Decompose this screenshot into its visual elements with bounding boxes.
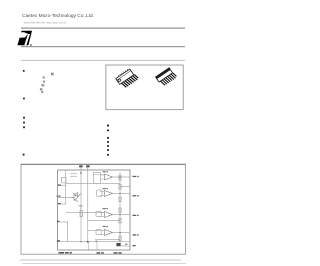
part number text fragment 2 <box>43 76 45 78</box>
part number text fragment 3 <box>43 81 45 83</box>
bias block U8 <box>96 229 101 235</box>
pin label OUT2 <box>133 195 137 196</box>
resistor R4 <box>119 208 121 213</box>
pin label OUT4 <box>133 234 137 235</box>
wire pin IN1 <box>58 185 67 187</box>
wire op4 input feed <box>88 230 100 232</box>
header rule below logo <box>21 46 185 47</box>
junction node OUT4 <box>119 232 120 233</box>
description bullets column <box>107 125 109 156</box>
feature bullet 4 <box>23 122 25 124</box>
wire Q4 emitter stub <box>96 242 98 250</box>
part number text fragment 6 <box>41 91 43 93</box>
schematic figure frame <box>21 164 186 254</box>
wire OUT3 <box>113 214 130 216</box>
pin label IN4 <box>57 221 60 222</box>
pin label OUT3 <box>133 215 137 216</box>
wire OUT4 <box>113 232 130 234</box>
resistor R6 <box>119 236 121 241</box>
wire pin IN3 <box>58 203 67 205</box>
schematic figure frame top rule <box>21 164 186 165</box>
part number text fragment 1 <box>51 73 54 76</box>
figure caption word 5 <box>101 252 104 254</box>
op-amp U4 <box>105 230 113 236</box>
wire pin IN4 <box>58 221 69 223</box>
part number text fragment 4 <box>41 84 44 86</box>
wire U4 input + <box>100 230 104 232</box>
DIP14 package drawing <box>115 67 139 90</box>
wire U1 input - <box>100 178 104 180</box>
feature bullet 3 <box>23 117 25 119</box>
figure caption word 6 <box>114 252 118 254</box>
wire Q3 emitter stub <box>88 242 90 250</box>
wire IN4 branch vertical <box>66 222 68 242</box>
op-amp U1 <box>105 174 113 180</box>
pin label IN1 <box>58 184 61 185</box>
wire U3 input - <box>100 216 104 218</box>
transistor Q3 on ground bus <box>87 241 89 243</box>
transistor Q4 on ground bus <box>96 241 97 242</box>
figure caption word 2 <box>65 252 69 254</box>
feature bullet 2 <box>23 98 25 100</box>
svg-text:World Wide Web Site: www.caete: World Wide Web Site: www.caetec.com.cn .… <box>24 21 69 25</box>
pin label IN2 plus mark <box>57 196 58 197</box>
transistor Q6 bias tap <box>80 172 82 173</box>
transistor Q2 output stage <box>116 243 120 246</box>
SO14 package drawing <box>156 67 177 87</box>
transistor Q1 <box>71 192 81 202</box>
footer rule 1 <box>20 260 182 261</box>
current source CS1 <box>62 177 67 183</box>
wire bias pin <box>120 186 130 188</box>
op-amp U3 value label <box>103 208 106 209</box>
junction node OUT2 <box>119 193 120 194</box>
op-amp U4 value label <box>103 226 106 227</box>
wire U3 input + <box>100 212 104 214</box>
junction node VCC-gnd bus <box>80 241 81 242</box>
op-amp U1 value label <box>103 171 106 172</box>
wire U4 input - <box>100 234 104 236</box>
wire U2 input + <box>100 191 104 193</box>
junction node OUT3 <box>119 214 120 215</box>
wire pin IN2 <box>58 196 75 198</box>
junction node OUT1 <box>119 176 120 177</box>
junction node bias-gnd bus <box>87 241 88 242</box>
package illustration box <box>106 65 183 110</box>
wire U1 input + <box>100 174 104 176</box>
pin 4 VCC label <box>79 165 82 167</box>
ground <box>79 205 83 207</box>
pin 11 GND label <box>86 165 89 167</box>
wire VCC vertical rail <box>80 170 82 242</box>
resistor R3 <box>119 197 121 202</box>
wire node B horizontal <box>66 212 104 214</box>
capacitor C1 plate <box>70 175 77 177</box>
transistor Q1 collector dot <box>75 195 76 196</box>
IC outline box <box>58 170 131 250</box>
wire GND pin stub <box>87 165 89 171</box>
resistor R2 <box>119 185 121 190</box>
op-amp U2 value label <box>103 188 106 189</box>
wire left vertical rail <box>65 170 67 204</box>
transistor Q5 near output rail <box>125 244 127 245</box>
resistor R7 <box>80 210 82 217</box>
header rule above logo <box>21 28 185 29</box>
wire VCC pin stub <box>80 165 82 171</box>
figure caption word 7 <box>118 252 121 254</box>
wire GND pin <box>120 245 130 247</box>
figure caption word 4 <box>97 252 101 254</box>
capacitor C1 plate <box>70 173 77 175</box>
resistor R5 <box>119 219 121 224</box>
op-amp U2 <box>105 191 113 197</box>
feature bullet 6 <box>23 154 25 156</box>
wire node C horizontal <box>88 220 120 222</box>
wire node D horizontal <box>95 239 120 241</box>
wire output vertical rail <box>119 172 121 246</box>
wire OUT2 <box>113 193 130 195</box>
figure caption word 3 <box>70 252 72 254</box>
pin label IN3 <box>58 203 61 204</box>
pin label OUT1 <box>133 176 137 177</box>
ST logo <box>17 31 32 46</box>
bias block U7 <box>96 211 101 217</box>
figure caption word 1 <box>59 252 65 254</box>
light section rule <box>21 60 185 61</box>
svg-text:Caetec Micro-Technology Co.,Lt: Caetec Micro-Technology Co.,Ltd. <box>22 13 94 18</box>
resistor R1 <box>119 176 121 181</box>
wire OUT1 <box>113 176 130 178</box>
op-amp U3 <box>105 212 113 218</box>
wire ground bus <box>58 241 131 243</box>
pin label GND left <box>57 240 60 241</box>
wire bias vertical rail <box>87 170 89 242</box>
wire supply feed <box>94 174 105 176</box>
pin label GND right <box>133 245 136 246</box>
part number text fragment 5 <box>40 88 42 90</box>
footer rule 2 <box>22 262 186 265</box>
feature bullet 1 <box>23 70 25 72</box>
bias block U6 <box>97 190 103 197</box>
feature bullet 5 <box>23 126 25 128</box>
current mirror block U5 <box>94 173 101 184</box>
wire node A horizontal <box>66 182 120 184</box>
wire U2 input - <box>100 195 104 197</box>
